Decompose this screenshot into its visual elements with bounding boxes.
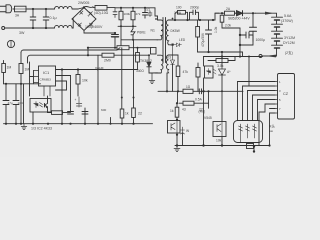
svg-text:TK3812: TK3812 xyxy=(140,59,152,63)
svg-text:R头: R头 xyxy=(269,124,275,129)
ground primary xyxy=(21,124,27,130)
svg-text:1000μ: 1000μ xyxy=(256,38,266,42)
resistor R19 xyxy=(136,48,140,70)
svg-text:22: 22 xyxy=(199,108,203,112)
resistor R6 xyxy=(76,70,80,97)
capacitor C12 xyxy=(145,8,152,17)
svg-text:1M: 1M xyxy=(25,68,30,72)
svg-text:K3: K3 xyxy=(167,56,171,60)
module box rounded xyxy=(234,121,263,143)
wire to bridge xyxy=(72,9,78,28)
capacitor C7 xyxy=(3,84,9,124)
wire left vertical with resistor xyxy=(19,53,23,124)
minus terminal wire with arrow xyxy=(259,55,277,58)
sense chain x177 xyxy=(177,91,179,103)
svg-text:(4Ω)-10Ω: (4Ω)-10Ω xyxy=(94,11,109,15)
svg-text:3W: 3W xyxy=(19,31,25,35)
transformer aux winding xyxy=(155,55,163,73)
resistor R12 3.0k xyxy=(208,57,235,63)
bridge rectifier B1 xyxy=(72,8,96,31)
capacitor C15 1000u xyxy=(250,13,257,41)
resistor R8 xyxy=(120,48,124,124)
snubber C loop xyxy=(190,10,199,20)
svg-text:CZ: CZ xyxy=(283,92,289,96)
svg-text:100k: 100k xyxy=(124,12,131,16)
resistor R7 xyxy=(48,110,71,114)
transformer T core xyxy=(163,18,166,63)
optocoupler IC2 box xyxy=(30,99,51,113)
svg-text:470μ/50V: 470μ/50V xyxy=(201,32,205,47)
sub bus xyxy=(118,25,136,27)
connector CZ xyxy=(275,74,295,120)
battery GB xyxy=(272,17,283,56)
svg-text:(2支): (2支) xyxy=(285,50,293,55)
capacitor CX2 xyxy=(43,9,49,28)
svg-text:330Ω: 330Ω xyxy=(136,69,144,73)
NTC RT xyxy=(84,6,115,11)
svg-text:1k: 1k xyxy=(170,109,174,113)
svg-text:P6KE: P6KE xyxy=(137,31,146,35)
wire top AC line xyxy=(13,8,15,10)
svg-text:100μ/400V: 100μ/400V xyxy=(85,25,103,29)
AC plug xyxy=(0,5,12,13)
resistor R13 xyxy=(196,63,200,91)
capacitor C16 in bus xyxy=(199,89,201,94)
optocoupler LED IC2b xyxy=(205,66,217,78)
secondary gnd bus A xyxy=(198,52,243,56)
snubber R loop xyxy=(175,11,188,21)
bottom right rail xyxy=(175,145,269,147)
svg-text:3Y12M: 3Y12M xyxy=(284,36,295,40)
wire R9 stub xyxy=(133,40,135,108)
resistor R at far left xyxy=(2,61,6,84)
transformer secondary winding 2 xyxy=(167,55,179,91)
svg-text:104: 104 xyxy=(18,101,23,105)
svg-text:2W005: 2W005 xyxy=(78,1,89,5)
wire xyxy=(26,8,55,10)
horizontal bus y84 xyxy=(4,83,41,85)
svg-text:100: 100 xyxy=(176,6,182,10)
resistor R18 in bus xyxy=(117,46,129,50)
node a xyxy=(32,8,34,10)
arrow to battery + xyxy=(256,13,277,17)
wire feedback loop A xyxy=(21,48,120,53)
svg-text:+: + xyxy=(75,98,77,102)
capacitor C9 xyxy=(68,112,74,115)
svg-text:22: 22 xyxy=(138,112,142,116)
diode VD3 xyxy=(235,11,256,16)
small box below module xyxy=(247,144,254,149)
resistor R2 startup xyxy=(131,8,135,26)
svg-text:2.0k: 2.0k xyxy=(225,24,231,28)
svg-text:DY12M: DY12M xyxy=(283,41,295,45)
svg-text:2000p: 2000p xyxy=(190,6,199,10)
transistor VT2 box xyxy=(213,122,226,137)
polarity dots xyxy=(155,18,157,20)
wire IC pins left bus xyxy=(30,62,34,96)
svg-text:2M0: 2M0 xyxy=(104,59,111,63)
capacitor C14 xyxy=(240,32,253,45)
transformer primary winding xyxy=(155,8,163,40)
capacitor C11 electrolytic xyxy=(75,97,82,107)
svg-text:1/3 IC2 4K33: 1/3 IC2 4K33 xyxy=(31,127,52,131)
svg-text:1M: 1M xyxy=(7,66,12,70)
IC1 box xyxy=(34,66,138,96)
zener VD5 xyxy=(181,127,185,146)
capacitor C8 xyxy=(13,84,19,124)
secondary top rail xyxy=(171,13,219,20)
wire x208 link xyxy=(208,91,210,103)
transistor VT3 box xyxy=(168,121,181,134)
fuse F xyxy=(15,6,27,12)
capacitor C10 xyxy=(82,112,88,115)
capacitor C3 bulk xyxy=(112,33,119,48)
svg-text:3.0k: 3.0k xyxy=(217,64,224,68)
svg-text:10k: 10k xyxy=(216,139,222,143)
wire long vertical xyxy=(120,26,122,47)
capacitor C4 xyxy=(143,8,148,18)
wire bottom AC line xyxy=(5,27,55,29)
svg-text:SB5200 +44V: SB5200 +44V xyxy=(228,17,250,21)
resistor R20 in bus xyxy=(183,89,193,93)
svg-text:1Ω: 1Ω xyxy=(186,85,191,89)
primary ground bus xyxy=(88,47,152,49)
zener VZ P6KE xyxy=(131,26,135,40)
wire xyxy=(33,96,48,124)
wire bridge top to rail xyxy=(78,7,84,9)
ground secondary xyxy=(174,146,180,152)
wire bulk cap bottom xyxy=(114,47,116,49)
circled 1 xyxy=(7,40,14,47)
svg-text:1k: 1k xyxy=(125,112,129,116)
node bridge top xyxy=(83,6,85,8)
resistor R17 divider xyxy=(220,12,240,28)
wire x209 xyxy=(208,103,210,108)
pin wires staircase xyxy=(238,82,276,121)
svg-text:(370W): (370W) xyxy=(281,19,293,23)
svg-text:1.0k: 1.0k xyxy=(214,26,218,33)
svg-text:CR6853: CR6853 xyxy=(40,78,52,82)
wire drain bus xyxy=(121,39,157,41)
capacitor C13 electrolytic xyxy=(206,20,212,52)
transistor VT1 xyxy=(45,101,48,110)
transformer secondary winding xyxy=(166,20,171,45)
inductor L1a top choke xyxy=(55,6,73,9)
wire feedback loop B xyxy=(27,55,88,58)
wire from opto xyxy=(198,57,204,92)
svg-text:IC1: IC1 xyxy=(43,70,50,75)
secondary gnd rail low xyxy=(158,90,243,92)
svg-text:DK5W: DK5W xyxy=(171,29,180,33)
terminal circle AC bottom xyxy=(2,27,5,30)
svg-text:221: 221 xyxy=(145,8,151,12)
diode VD2 xyxy=(147,55,152,73)
resistor R14 47k xyxy=(176,58,180,91)
svg-text:LED: LED xyxy=(179,38,186,42)
resistor R15 xyxy=(175,103,179,120)
svg-text:V545: V545 xyxy=(204,116,212,120)
stub x110 xyxy=(110,118,112,124)
wire x203 down xyxy=(203,91,205,145)
resistor R16 horizontal xyxy=(179,101,209,105)
svg-text:N1: N1 xyxy=(151,29,155,33)
LED indicator xyxy=(172,43,182,47)
svg-text:600: 600 xyxy=(101,108,106,112)
resistor R1 startup xyxy=(119,8,123,27)
wire mid xyxy=(221,52,223,66)
svg-text:0.5A: 0.5A xyxy=(195,98,203,102)
svg-text:+: + xyxy=(87,14,90,19)
svg-text:47k: 47k xyxy=(136,12,141,16)
ground aux xyxy=(149,73,155,84)
wire second left vertical xyxy=(24,58,28,124)
TL431 IC4 xyxy=(219,66,232,91)
wire aux bottom xyxy=(152,72,158,74)
secondary bus B to minus xyxy=(204,56,263,58)
resistor R9 xyxy=(132,108,136,124)
svg-text:47μ: 47μ xyxy=(8,101,13,105)
node column x240 xyxy=(239,28,241,55)
svg-text:43: 43 xyxy=(182,108,186,112)
diode VD4 xyxy=(171,45,175,91)
capacitor C5 xyxy=(113,8,117,18)
resistor R11 xyxy=(196,20,200,52)
bottom rail left xyxy=(4,123,153,125)
svg-text:0.1μ: 0.1μ xyxy=(50,16,57,20)
resistor R5 xyxy=(88,53,148,57)
svg-text:47k: 47k xyxy=(183,70,189,74)
wire x222 down xyxy=(221,91,223,145)
primary top rail xyxy=(115,7,155,9)
svg-text:5.6A: 5.6A xyxy=(284,14,292,18)
inductor L1b bottom choke xyxy=(55,25,73,28)
resistor R10 on output xyxy=(215,11,237,15)
svg-text:10k: 10k xyxy=(82,79,88,83)
capacitor CX1 xyxy=(30,9,36,28)
wire verticals to rail xyxy=(62,55,98,124)
wire bridge bottom out xyxy=(84,31,115,34)
box aux component xyxy=(151,48,157,55)
